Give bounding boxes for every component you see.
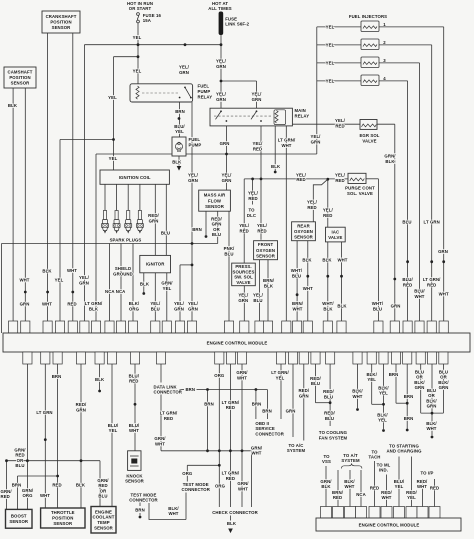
wire GRN/BLK from VSS xyxy=(325,466,327,507)
svg-text:WHT: WHT xyxy=(292,306,302,311)
wire ORG / BLK-WHT test mode branch xyxy=(186,465,188,481)
label RED xyxy=(67,302,76,307)
svg-text:RED/: RED/ xyxy=(298,388,309,393)
svg-text:BLK: BLK xyxy=(322,257,332,262)
label NCA NCA xyxy=(105,289,125,294)
svg-text:BRN: BRN xyxy=(185,387,195,392)
injector feed bus xyxy=(316,27,318,154)
svg-text:BLK: BLK xyxy=(89,306,99,311)
wire ORG to check connector xyxy=(218,364,220,507)
svg-text:EGR SOL: EGR SOL xyxy=(359,133,379,138)
svg-text:FUEL INJECTORS: FUEL INJECTORS xyxy=(349,14,387,19)
label TO DLC xyxy=(247,208,256,219)
label YEL/GRN main sw2 xyxy=(252,92,263,103)
wire injector2 return LT GRN down xyxy=(431,45,433,321)
label BRN/WHT rear xyxy=(292,301,304,312)
label YEL injector4 xyxy=(326,78,335,83)
svg-text:RELAY: RELAY xyxy=(295,114,310,119)
wire BLK/ORG xyxy=(132,244,134,322)
fuel pump symbol xyxy=(175,142,182,152)
svg-text:BLK/: BLK/ xyxy=(344,479,355,484)
svg-text:BLU: BLU xyxy=(373,306,382,311)
wire NCA shield 2 xyxy=(120,244,122,322)
svg-text:BLU: BLU xyxy=(415,369,424,374)
svg-text:GRN/: GRN/ xyxy=(237,481,249,486)
wire BLU/YEL to coolant sensor xyxy=(111,364,113,508)
svg-text:WHT: WHT xyxy=(238,486,248,491)
svg-text:ORG: ORG xyxy=(22,493,33,498)
label spark plugs xyxy=(110,238,142,243)
wire injector3 return BLU/WHT down xyxy=(419,63,421,321)
label BLK/WHT at xyxy=(344,479,355,489)
label YEL injector1 xyxy=(326,24,335,29)
svg-text:WHT: WHT xyxy=(251,451,261,456)
svg-text:GRN: GRN xyxy=(299,393,309,398)
label fuse link S6F-2 xyxy=(225,17,249,27)
purge solenoid coil xyxy=(350,178,364,181)
svg-text:GRN: GRN xyxy=(179,70,189,75)
purge control solenoid valve box xyxy=(348,173,366,183)
label purge cont sol valve xyxy=(345,185,375,196)
svg-text:YEL: YEL xyxy=(163,286,172,291)
main relay dashed link xyxy=(214,115,272,117)
svg-text:POSITION: POSITION xyxy=(50,20,71,25)
svg-text:SYSTEM: SYSTEM xyxy=(287,448,306,453)
wire horizontal y465.3 xyxy=(187,464,219,466)
wire BLK WHT/BLK IAC to ECM xyxy=(327,242,329,321)
svg-text:ALL TIMES: ALL TIMES xyxy=(208,6,232,11)
label shield ground xyxy=(113,266,133,277)
wire BLU/YEL from starting xyxy=(398,457,400,507)
wire injector3 return xyxy=(379,62,420,64)
label hot in run or start xyxy=(127,1,153,11)
label BLK/YEL b xyxy=(378,385,389,395)
label fuel pump relay xyxy=(198,84,213,100)
svg-text:GRN/: GRN/ xyxy=(22,488,34,493)
junction y460.7 b xyxy=(80,459,83,462)
label WHT xyxy=(19,278,29,283)
wire WHT BLK IAC to ECM xyxy=(341,242,343,321)
ignition coil box xyxy=(100,170,169,184)
svg-text:GRN/: GRN/ xyxy=(14,447,26,452)
wire RED/YEL from charging xyxy=(411,457,413,507)
wire BLU OR BLK/GRN middle xyxy=(431,364,433,413)
wire BLU OR BLK/GRN left xyxy=(420,364,422,413)
splice BLK end main relay xyxy=(274,171,277,174)
ECM connector pins bottom row xyxy=(23,352,448,364)
svg-text:GRN: GRN xyxy=(252,97,262,102)
junction bus DLC stub xyxy=(251,178,254,181)
fuel pump relay coil xyxy=(136,86,139,99)
svg-text:TEST MODE: TEST MODE xyxy=(183,482,209,487)
junction y460.7 a xyxy=(26,459,29,462)
wire LT GRN/RED GRN/WHT from DLC xyxy=(160,395,162,451)
label YEL xyxy=(55,278,64,283)
junction U mid xyxy=(431,412,434,415)
svg-text:RED: RED xyxy=(15,453,24,458)
label RED/BLU fan a xyxy=(310,376,321,386)
label BLK/YEL c xyxy=(377,412,388,422)
label BLU/RED knock xyxy=(129,373,140,383)
svg-text:YEL: YEL xyxy=(108,95,117,100)
svg-text:CONNECTOR: CONNECTOR xyxy=(255,431,284,436)
wire BRN dash from DLC xyxy=(180,389,185,391)
svg-text:CONNECTOR: CONNECTOR xyxy=(129,498,158,503)
wire RED/BLU jog xyxy=(316,402,331,404)
svg-text:YEL/: YEL/ xyxy=(216,59,227,64)
svg-text:FLOW: FLOW xyxy=(208,198,222,203)
label to A/C system xyxy=(287,443,306,453)
wire YEL/GRN branch to ECM xyxy=(179,265,181,321)
svg-text:OR: OR xyxy=(416,375,423,380)
wire BRN BRN stub xyxy=(406,364,408,429)
svg-text:RED: RED xyxy=(253,146,262,151)
svg-text:SENSOR: SENSOR xyxy=(125,479,145,484)
svg-text:DLC: DLC xyxy=(247,213,256,218)
svg-text:YEL/: YEL/ xyxy=(248,191,259,196)
label GRN main relay out xyxy=(220,141,230,146)
svg-text:BLU: BLU xyxy=(402,219,411,224)
svg-text:AND CHARGING: AND CHARGING xyxy=(386,449,422,454)
svg-text:RED: RED xyxy=(335,178,344,183)
fuel pump relay switch xyxy=(179,87,192,99)
wire injector4 return BLU down xyxy=(407,81,409,321)
svg-text:VSS: VSS xyxy=(322,459,331,464)
svg-text:YEL: YEL xyxy=(109,156,118,161)
label ORG test mode xyxy=(182,471,193,476)
svg-text:YEL/: YEL/ xyxy=(238,292,249,297)
svg-text:2: 2 xyxy=(383,40,386,45)
label BRN right a xyxy=(389,372,399,377)
label LT GRN xyxy=(36,410,52,415)
svg-text:BLK: BLK xyxy=(271,164,281,169)
wire BLK/YEL jog xyxy=(372,403,384,405)
svg-text:YEL/: YEL/ xyxy=(335,118,346,123)
svg-text:CONNECTOR: CONNECTOR xyxy=(181,487,210,492)
label BLK check xyxy=(227,521,237,526)
splice IAC right xyxy=(340,275,343,278)
svg-text:PUMP: PUMP xyxy=(189,143,202,148)
wire test mode to check connector xyxy=(185,493,187,520)
wire YEL/GRN from h44.7 down to ECM xyxy=(83,45,85,321)
label BLK rear xyxy=(302,257,312,262)
label RED/WHT ip xyxy=(417,479,428,489)
svg-text:ORG: ORG xyxy=(182,471,193,476)
svg-text:BRN: BRN xyxy=(252,401,262,406)
svg-text:GRN/: GRN/ xyxy=(154,436,166,441)
svg-text:FUEL: FUEL xyxy=(198,84,210,89)
label main relay xyxy=(295,108,310,119)
svg-text:ORG: ORG xyxy=(215,483,226,488)
svg-text:BLK: BLK xyxy=(8,103,18,108)
label BRN obd xyxy=(252,401,262,406)
svg-text:BLK/: BLK/ xyxy=(426,398,437,403)
svg-text:SENSOR: SENSOR xyxy=(53,521,73,526)
splice WHT xyxy=(24,291,27,294)
svg-text:BLK: BLK xyxy=(76,482,86,487)
label RED/GRN throttle xyxy=(76,402,87,413)
wire BRN bus y389.5 xyxy=(208,389,268,391)
svg-text:IGNITION COIL: IGNITION COIL xyxy=(119,175,151,180)
junction y450.8 a xyxy=(206,449,209,452)
wire GRN/WHT to check connector xyxy=(241,451,243,507)
label GRN/RED OR BLU coolant xyxy=(97,478,109,499)
svg-text:YEL: YEL xyxy=(133,35,142,40)
wire camshaft right WHT/GRN xyxy=(24,88,26,321)
main relay switch 2 xyxy=(251,110,262,122)
svg-text:MASS AIR: MASS AIR xyxy=(204,192,226,197)
wire YEL/BLU front oxygen to ECM xyxy=(259,260,261,321)
svg-text:GRN: GRN xyxy=(149,219,159,224)
svg-text:RED: RED xyxy=(323,213,332,218)
splice test mode BRN end xyxy=(139,516,142,519)
svg-text:SENSOR: SENSOR xyxy=(94,525,114,530)
brace A/T xyxy=(341,463,362,468)
svg-text:WHT: WHT xyxy=(352,394,362,399)
label YEL/GRN ecm xyxy=(79,275,90,286)
wire YEL/RED to EGR valve xyxy=(293,123,360,125)
svg-text:YEL/: YEL/ xyxy=(323,208,334,213)
svg-text:KNOCK: KNOCK xyxy=(126,473,143,478)
svg-text:PURGE CONT: PURGE CONT xyxy=(345,185,375,190)
svg-text:WHT: WHT xyxy=(155,441,165,446)
label YEL/BLU ignitor xyxy=(150,301,161,311)
svg-text:BRN: BRN xyxy=(135,508,145,513)
wire YEL injector2 feed xyxy=(317,44,361,46)
svg-text:YEL/: YEL/ xyxy=(307,200,318,205)
wire LT GRN / WHT to throttle xyxy=(44,364,46,508)
wire GRN/RED OR BLU to coolant xyxy=(99,461,101,508)
wire horizontal y450.8 xyxy=(161,450,251,452)
svg-text:RED: RED xyxy=(370,485,379,490)
svg-text:BRN/: BRN/ xyxy=(332,490,344,495)
svg-text:15A: 15A xyxy=(143,18,151,23)
label GRN/WHT ecm xyxy=(236,370,248,381)
spark plug wire 4 xyxy=(139,184,141,211)
crankshaft position sensor xyxy=(42,11,80,33)
svg-text:GRN: GRN xyxy=(311,140,321,145)
label LT GRN/YEL ecm xyxy=(271,370,289,381)
splice rear oxygen left xyxy=(296,293,299,296)
label WHT 2 xyxy=(67,268,77,273)
throttle position sensor box xyxy=(41,508,85,528)
wire BRN / RED to throttle xyxy=(57,364,59,508)
svg-text:GRN: GRN xyxy=(20,302,30,307)
svg-text:LT GRN/: LT GRN/ xyxy=(85,301,103,306)
label to cooling fan system xyxy=(319,430,348,440)
svg-text:TO I/P: TO I/P xyxy=(421,470,434,475)
label to A/T system xyxy=(341,453,360,463)
svg-text:RED/: RED/ xyxy=(211,216,222,221)
wire BLK fuel pump to ground xyxy=(178,156,180,166)
svg-text:RED/: RED/ xyxy=(417,479,428,484)
svg-text:BLU/: BLU/ xyxy=(394,479,405,484)
junction DLC BRN xyxy=(206,388,209,391)
label BLK throttle xyxy=(76,482,86,487)
IAC valve box xyxy=(326,227,346,242)
label to VSS xyxy=(322,454,331,464)
svg-text:YEL/: YEL/ xyxy=(239,223,250,228)
label RED ip xyxy=(430,485,439,490)
wire LT GRN/YEL to OBD connector xyxy=(280,364,282,419)
svg-text:BLU/: BLU/ xyxy=(174,124,185,129)
label YEL/BLU front out xyxy=(253,292,264,303)
label YEL/GRN main feed xyxy=(216,59,227,70)
svg-text:BLU: BLU xyxy=(151,306,160,311)
label LT GRN/RED check xyxy=(222,470,240,481)
splice injector1 xyxy=(442,260,445,263)
svg-text:GRN/: GRN/ xyxy=(236,370,248,375)
ECM connector pins top row xyxy=(9,321,449,333)
label EGR sol valve xyxy=(359,133,379,144)
splice injector2 xyxy=(430,260,433,263)
label ORG check2 xyxy=(215,483,226,488)
label YEL/GRN relay wire xyxy=(188,173,199,184)
svg-text:PUMP: PUMP xyxy=(198,89,211,94)
svg-text:SENSOR: SENSOR xyxy=(11,81,31,86)
junction YEL/GRN h44.7 xyxy=(184,43,187,46)
svg-text:LT GRN/: LT GRN/ xyxy=(423,277,441,282)
wire branch jog y264.9 xyxy=(180,264,192,266)
label BLK IAC out xyxy=(337,304,347,309)
svg-text:LT GRN: LT GRN xyxy=(36,410,52,415)
svg-text:WHT: WHT xyxy=(344,484,354,489)
svg-text:BLU: BLU xyxy=(15,463,24,468)
svg-text:3: 3 xyxy=(383,58,386,63)
label BLK/YEL a xyxy=(366,372,377,382)
svg-text:RED/: RED/ xyxy=(381,490,392,495)
spark plug 1 xyxy=(102,211,109,234)
label PNK/BLU xyxy=(224,246,235,256)
svg-text:CRANKSHAFT: CRANKSHAFT xyxy=(46,14,77,19)
junction bus front oxygen xyxy=(260,178,263,181)
label YEL/RED front oxygen xyxy=(257,223,268,234)
svg-text:BLK: BLK xyxy=(323,306,333,311)
splice BRN end MAF xyxy=(205,235,208,238)
svg-text:TACH: TACH xyxy=(368,455,380,460)
wire RED from tach xyxy=(374,461,376,507)
svg-text:BLK/: BLK/ xyxy=(414,380,425,385)
splice rear oxygen right xyxy=(306,275,309,278)
svg-text:YEL/: YEL/ xyxy=(216,92,227,97)
svg-text:YEL: YEL xyxy=(55,278,64,283)
svg-text:PNK/: PNK/ xyxy=(224,246,235,251)
label YEL/RED bus xyxy=(296,173,307,183)
label fuel pump xyxy=(189,137,202,147)
svg-text:GROUND: GROUND xyxy=(113,272,133,277)
wire YEL/GRN to MAF xyxy=(226,126,228,190)
spark plug wire 1 xyxy=(104,184,106,211)
spark plug wire 3 xyxy=(127,184,129,211)
label ignition coil BLU xyxy=(161,231,170,236)
wire camshaft left BLK xyxy=(12,88,14,321)
wire BLK main relay coil out xyxy=(274,125,276,172)
wire BLK/WHT from A/T xyxy=(349,470,351,507)
label to ML ind xyxy=(377,462,391,472)
svg-text:OR: OR xyxy=(428,393,435,398)
svg-text:TO A/T: TO A/T xyxy=(343,453,358,458)
junction YEL/GRN branch xyxy=(191,264,194,267)
label GRN injector1 xyxy=(438,249,448,254)
wire EGR out xyxy=(377,123,395,125)
svg-text:BLK/: BLK/ xyxy=(426,421,437,426)
svg-text:WHT: WHT xyxy=(67,268,77,273)
junction YEL h44.7 fuse16 xyxy=(137,43,140,46)
svg-text:BLK: BLK xyxy=(302,257,312,262)
label YEL/RED main relay out xyxy=(253,141,264,152)
label BRN fuel pump xyxy=(175,109,185,114)
svg-text:BLK: BLK xyxy=(321,484,331,489)
svg-text:YEL: YEL xyxy=(378,418,387,423)
svg-text:SENSOR: SENSOR xyxy=(52,25,72,30)
svg-text:BLK: BLK xyxy=(227,521,237,526)
junction BRN splice xyxy=(178,117,181,120)
svg-text:WHT/: WHT/ xyxy=(372,301,384,306)
label BLU OR BLK/GRN c xyxy=(426,388,437,409)
svg-text:RED/: RED/ xyxy=(406,490,417,495)
svg-text:WHT/: WHT/ xyxy=(322,301,334,306)
svg-text:RED: RED xyxy=(430,485,439,490)
label WHT throttle xyxy=(40,493,50,498)
svg-text:SENSOR: SENSOR xyxy=(294,234,314,239)
wire U bridge xyxy=(421,412,444,414)
EGR solenoid coil xyxy=(362,124,377,127)
svg-text:YEL/: YEL/ xyxy=(174,301,185,306)
svg-text:SENSOR: SENSOR xyxy=(256,253,276,258)
svg-text:CONNECTOR: CONNECTOR xyxy=(154,389,183,394)
svg-text:GRN: GRN xyxy=(220,141,230,146)
wire BLU coil to ignitor xyxy=(165,184,167,255)
svg-text:TO ML: TO ML xyxy=(377,462,391,467)
svg-text:YEL: YEL xyxy=(367,377,376,382)
svg-text:BLU: BLU xyxy=(439,369,448,374)
svg-text:WHT: WHT xyxy=(414,294,424,299)
svg-text:RED: RED xyxy=(248,196,257,201)
wire test mode stub xyxy=(139,503,141,507)
label GRN/WHT right xyxy=(251,445,263,455)
svg-text:GRN: GRN xyxy=(238,298,248,303)
label knock sensor xyxy=(125,473,145,483)
label GRN/WHT dlc xyxy=(154,436,166,447)
svg-text:BLK/: BLK/ xyxy=(366,372,377,377)
label YEL/GRN press out xyxy=(238,292,249,303)
svg-text:BLU: BLU xyxy=(224,251,233,256)
svg-text:CHECK CONNECTOR: CHECK CONNECTOR xyxy=(212,510,258,515)
label to tach xyxy=(368,449,380,459)
wire RED/BLU left xyxy=(315,364,317,403)
label YEL/GRN injector bus xyxy=(311,134,322,145)
rear oxygen sensor box xyxy=(292,222,316,241)
svg-text:BLU: BLU xyxy=(98,494,107,499)
svg-text:YEL/: YEL/ xyxy=(222,173,233,178)
svg-text:BRN: BRN xyxy=(192,227,202,232)
wire GRN/BLK EGR to ECM xyxy=(394,124,396,321)
wire from fuse link down xyxy=(220,35,222,108)
svg-text:FRONT: FRONT xyxy=(258,242,274,247)
svg-text:VALVE: VALVE xyxy=(328,235,342,240)
svg-text:LINK S6F-2: LINK S6F-2 xyxy=(225,22,249,27)
label GRN/ORG boost xyxy=(22,488,34,498)
svg-text:SOL. VALVE: SOL. VALVE xyxy=(347,191,373,196)
splice BLK/YEL end xyxy=(382,429,385,432)
svg-text:BLK: BLK xyxy=(172,159,182,164)
wire YEL/GRN press sources to ECM xyxy=(243,286,245,321)
wire BRN drop b xyxy=(255,390,257,420)
label YEL/RED DLC stub xyxy=(248,191,259,202)
wire YEL/GRN into main relay sw2 xyxy=(256,81,258,108)
svg-text:YEL: YEL xyxy=(175,129,184,134)
label WHT IAC xyxy=(337,257,347,262)
